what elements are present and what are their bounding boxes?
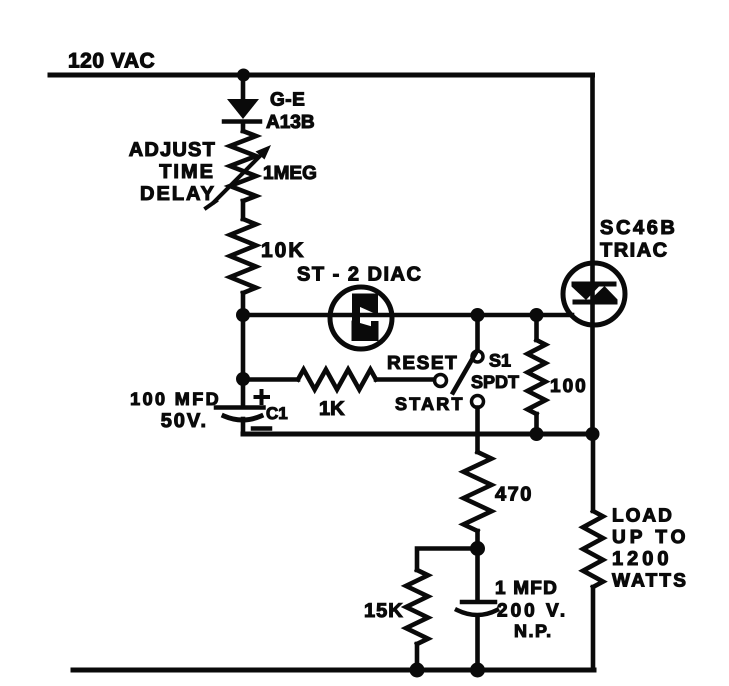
svg-text:ADJUST: ADJUST — [129, 139, 216, 161]
svg-text:1MEG: 1MEG — [263, 163, 317, 184]
svg-text:C1: C1 — [266, 404, 288, 423]
svg-text:200 V.: 200 V. — [497, 601, 568, 622]
svg-text:TRIAC: TRIAC — [600, 240, 669, 262]
svg-text:50V.: 50V. — [161, 410, 208, 432]
svg-text:1K: 1K — [319, 398, 345, 420]
svg-text:A13B: A13B — [266, 112, 315, 133]
svg-text:WATTS: WATTS — [612, 571, 688, 592]
svg-text:100: 100 — [550, 376, 588, 397]
svg-text:470: 470 — [495, 484, 533, 506]
svg-text:15K: 15K — [364, 600, 404, 622]
svg-text:N.P.: N.P. — [514, 621, 553, 641]
svg-text:10K: 10K — [261, 239, 306, 262]
svg-text:G-E: G-E — [270, 90, 305, 111]
svg-text:100 MFD: 100 MFD — [130, 389, 221, 409]
svg-text:DELAY: DELAY — [140, 183, 216, 205]
svg-text:LOAD: LOAD — [612, 506, 674, 527]
svg-text:1 MFD: 1 MFD — [495, 578, 558, 599]
svg-text:S1: S1 — [489, 351, 511, 371]
svg-text:ST - 2 DIAC: ST - 2 DIAC — [297, 264, 422, 286]
svg-text:1200: 1200 — [612, 548, 673, 570]
svg-text:RESET: RESET — [387, 353, 458, 374]
svg-text:UP TO: UP TO — [612, 527, 689, 548]
svg-text:TIME: TIME — [159, 161, 215, 183]
svg-text:SPDT: SPDT — [471, 372, 519, 392]
svg-text:120 VAC: 120 VAC — [68, 50, 155, 73]
svg-text:SC46B: SC46B — [600, 217, 677, 239]
svg-text:START: START — [395, 394, 465, 414]
